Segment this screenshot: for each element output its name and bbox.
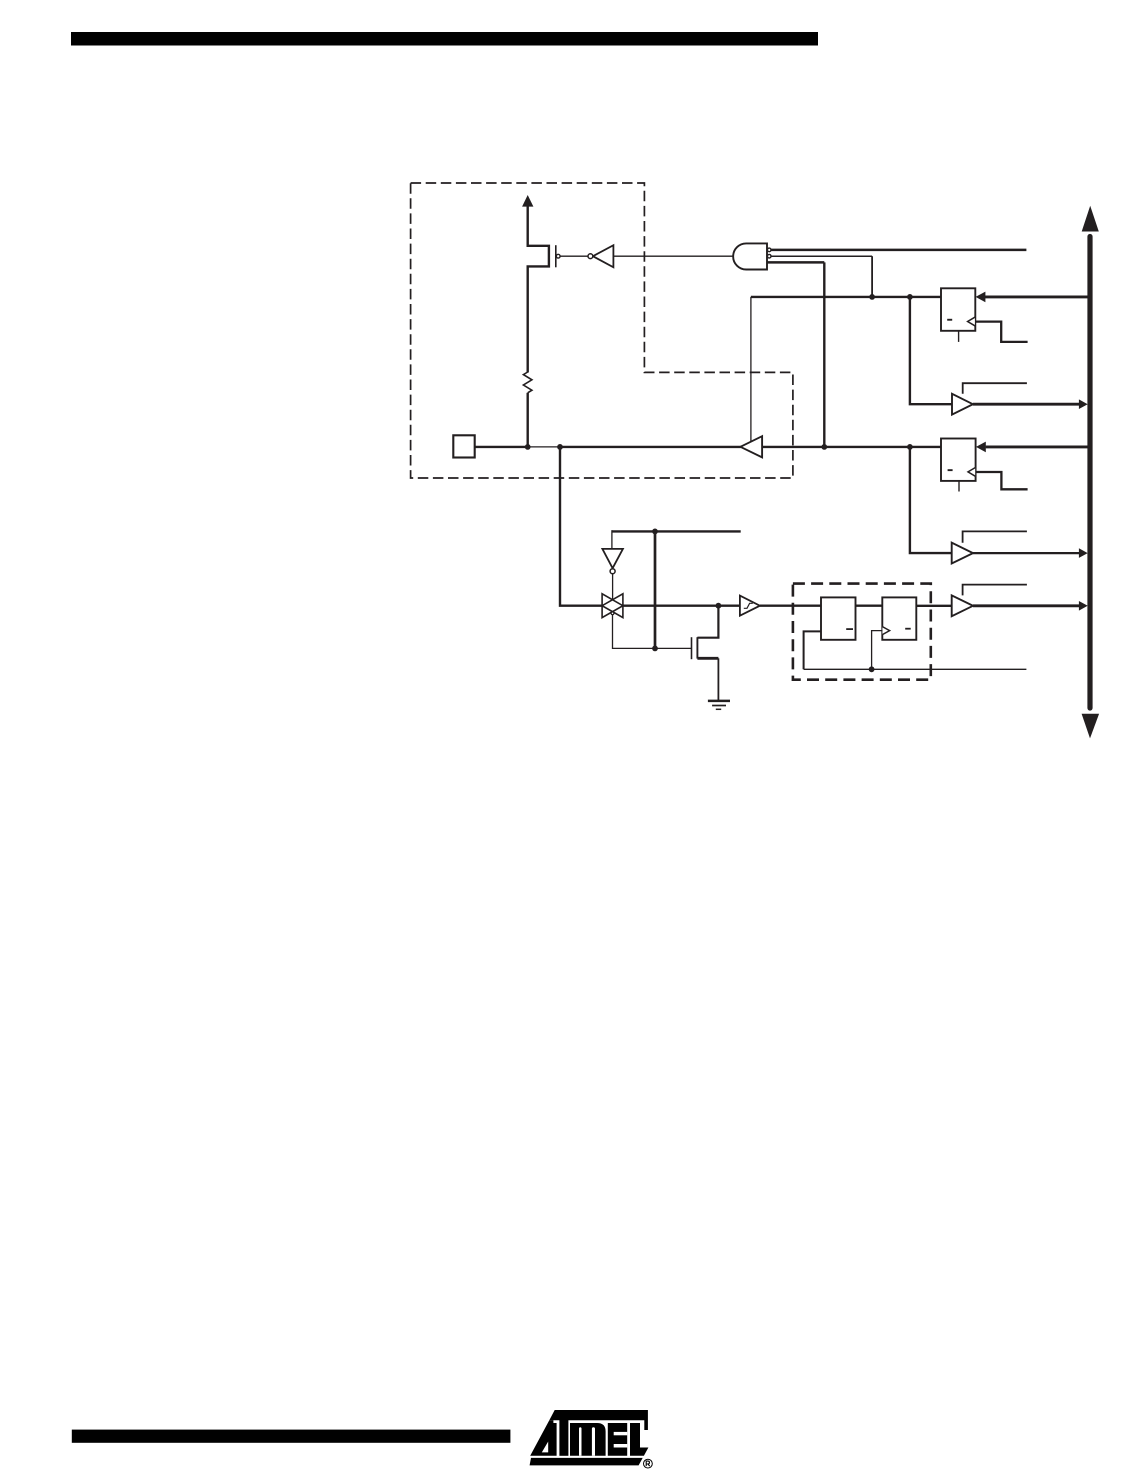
wire Q2 source [697,657,718,660]
resistor R1 pull-up [523,372,532,393]
wire WPx clock step [976,472,1028,489]
logo bottom bar [530,1458,643,1466]
node NMOS drain [716,603,722,609]
wire transmission gate lower control [613,615,692,649]
data bus vertical line [1087,237,1092,709]
logo letter A [530,1420,556,1456]
latch L1 [821,597,856,639]
AND gate U1 (pull-up enable, mirrored pointing left) [733,243,767,269]
wire latch L1 clock [804,631,821,669]
dashed box: synchronizer [793,584,931,680]
node DDxn Q / AND input2 [869,294,875,300]
wire data bus to PORTxn D [986,445,1088,448]
wire SLEEP vertical [654,531,657,648]
node DDxn Q / RDx branch [907,294,913,300]
buffer U4 RDx (read DDxn) [952,394,973,415]
PORTxn clock triangle [968,468,975,477]
wire AND gate output to inverter input [613,255,733,257]
wire RDx buffer to bus [973,403,1080,406]
logo letter E notch 2 [614,1444,628,1448]
wire PMOS gate to inverter output bubble [560,255,588,257]
wire pad to pull-up node [475,446,528,448]
wire AND input3 from pad line [767,261,824,264]
wire latch L1 to latch L2 [856,605,883,607]
schmitt hysteresis mark [744,603,753,608]
buffer U5 RPx (read PORTxn) [952,543,973,564]
logo top bar [549,1410,648,1430]
transmission gate Q3 triangle right [602,594,623,618]
inverter U2 output bubble [588,254,593,259]
ground [708,701,730,709]
wire RPx buffer to bus [973,552,1080,554]
inverter U2 (pull-up enable, pointing left) [593,245,614,267]
arrow RPx into bus [1079,548,1088,558]
wire latch L2 clock [872,631,883,670]
arrow into DDxn D [976,292,986,303]
node pad line / AND input3 [821,444,827,450]
transistor Q1 gate bubble [556,254,560,258]
wire transmission gate to schmitt trigger [623,605,740,607]
logo letter M slot 2 [592,1427,595,1456]
wire between pad nodes [528,446,560,448]
latch L1 Q-bar overbar mark [846,628,853,630]
transmission gate control bubble [611,612,614,615]
wire RDx enable [963,383,1027,394]
VCC symbol (pull-up supply arrow) [522,195,533,207]
node pad line / PINxn branch [907,444,913,450]
node SLEEP / NMOS gate [652,646,658,652]
wire DDxn Q row [751,296,941,298]
node pull-up junction [525,444,531,450]
tri-state output driver U3 (pointing left) [740,436,762,457]
AND gate U1 input bubble 2 [767,254,771,258]
logo letter A counter [542,1442,548,1453]
logo letter M [570,1423,606,1456]
wire AND input2 from DDxn Q [771,255,872,257]
latch L2 Q-bar overbar mark [905,628,911,630]
wire DDxn enable to output driver [750,297,752,442]
wire latch L2 to PINxn buffer [916,605,951,607]
DDxn clock triangle [968,317,975,326]
logo letter E [608,1423,627,1456]
transistor Q2 NMOS channel bar [696,637,698,658]
transistor Q2 NMOS gate bar [691,637,693,659]
latch L2 [882,597,916,639]
node pad input branch [557,444,563,450]
arrow into PORTxn D [976,442,986,453]
flip-flop PORTxn [941,439,976,481]
wire DDxn Q down to RDx buffer [910,297,952,404]
wire SLEEP down to inverter [611,530,613,549]
AND gate U1 input bubble 1 [767,248,771,252]
wire clk I/O row [804,668,1027,670]
header bar [71,32,818,46]
logo letter M slot 1 [579,1427,582,1456]
buffer U8 PINxn read [952,595,973,616]
wire inverter to transmission gate [612,574,614,600]
wire driver input from PORTxn Q [762,446,941,448]
data bus bottom arrow [1082,714,1100,739]
wire resistor to pad node [527,393,529,447]
PORTxn Q-bar overbar mark [948,469,953,471]
wire AND input2 vertical [871,256,873,297]
wire schmitt to synchronizer [760,605,821,607]
schmitt trigger U7 [740,596,760,616]
logo letter E notch 1 [614,1432,628,1435]
wire PUD input [771,249,1026,252]
latch L2 clock triangle [882,627,889,635]
wire Q2 source to ground [717,658,719,701]
wire PORTxn reset stub [958,481,960,492]
dashed box: pull-up and output driver section [411,183,793,478]
wire RPx enable [963,531,1027,542]
logo letter T [559,1419,568,1456]
wire PINxn buffer to bus [973,604,1080,607]
Atmel logo [530,1410,653,1468]
wire AND input3 branch down to pad line [823,262,825,447]
transistor Q1 PMOS pull-up: gate bar [555,245,557,267]
wire pad node to output driver [560,446,741,448]
wire Q2 drain [697,606,718,638]
footer bar [72,1430,511,1443]
wire data bus to DDxn D [985,295,1088,298]
logo letter L [630,1423,648,1456]
inverter U6 (sleep, pointing down) [602,549,623,568]
inverter U6 output bubble [610,569,615,574]
logo registered mark [644,1459,653,1468]
pad Pxn [453,435,474,457]
wire SLEEP row [612,530,741,532]
transmission gate Q3 triangle left [602,594,623,618]
wire PORTxn Q down to RPx buffer [910,447,952,553]
arrow PINxn into bus [1079,601,1088,611]
flip-flop DDxn [941,288,975,331]
wire RPx read enable [963,585,1027,596]
arrow RDx into bus [1079,399,1088,409]
data bus top arrow [1082,206,1099,232]
node clk branch [869,666,875,672]
node SLEEP branch [652,529,658,535]
wire WDx clock step [975,322,1027,342]
DDxn Q-bar overbar mark [947,319,952,321]
wire pad branch down to schmitt input [560,447,602,606]
wire DDxn reset stub [958,331,960,342]
wire VCC to PMOS source and drain to resistor [528,206,549,373]
